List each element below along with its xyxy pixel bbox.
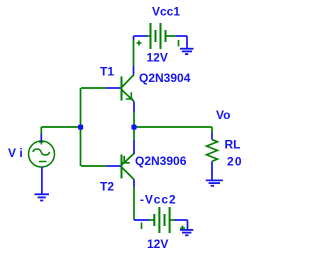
svg-text:20: 20 bbox=[227, 155, 243, 169]
svg-text:T2: T2 bbox=[100, 180, 114, 194]
svg-text:Vi: Vi bbox=[8, 146, 26, 160]
svg-text:Q2N3906: Q2N3906 bbox=[135, 154, 187, 168]
svg-text:12V: 12V bbox=[147, 237, 168, 251]
svg-text:Q2N3904: Q2N3904 bbox=[139, 71, 191, 85]
svg-text:Vcc1: Vcc1 bbox=[152, 5, 180, 19]
svg-text:Vo: Vo bbox=[216, 108, 230, 122]
svg-text:12V: 12V bbox=[147, 51, 168, 65]
svg-text:T1: T1 bbox=[100, 65, 114, 79]
svg-text:RL: RL bbox=[225, 138, 241, 152]
svg-text:-Vcc2: -Vcc2 bbox=[140, 193, 177, 207]
